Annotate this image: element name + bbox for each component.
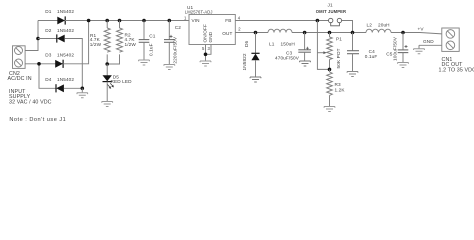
node bus R1 <box>105 19 109 23</box>
node bus R2 <box>118 19 122 23</box>
node D6 junction <box>254 31 258 35</box>
svg-text:D3: D3 <box>45 52 52 57</box>
svg-text:L1: L1 <box>269 42 275 47</box>
svg-text:ON/OFF: ON/OFF <box>203 24 208 42</box>
svg-text:GND: GND <box>208 31 213 42</box>
svg-text:C1: C1 <box>149 33 156 38</box>
resistor R3 <box>327 69 333 106</box>
svg-text:C2: C2 <box>175 25 182 30</box>
resistor R1 <box>104 21 110 65</box>
svg-text:1.2 TO 35 VDC: 1.2 TO 35 VDC <box>439 67 474 73</box>
svg-text:D1: D1 <box>45 9 52 14</box>
svg-text:0.1uF: 0.1uF <box>149 43 154 56</box>
label D5 RED LED <box>111 75 133 85</box>
connector CN1 <box>442 28 459 51</box>
wire D3 cathode riser to bus <box>63 21 89 64</box>
inductor L2 <box>366 29 391 32</box>
inductor L1 <box>268 29 292 32</box>
svg-text:470uF/50V: 470uF/50V <box>275 56 300 61</box>
svg-text:J1: J1 <box>328 3 333 8</box>
ground (C1) <box>139 60 150 65</box>
wire AC2 vertical to D4 <box>39 64 56 89</box>
wire OUT line mid <box>292 32 366 34</box>
svg-text:VIN: VIN <box>192 18 200 23</box>
svg-text:GND: GND <box>423 39 434 44</box>
svg-text:L2: L2 <box>367 23 373 28</box>
label INPUT SUPPLY <box>9 89 52 105</box>
svg-text:+V: +V <box>418 27 425 32</box>
ground (output) <box>414 45 425 53</box>
node LED junction <box>105 62 109 66</box>
svg-text:P1: P1 <box>336 37 342 42</box>
svg-text:1N5402: 1N5402 <box>57 28 74 33</box>
node bus x88 <box>87 19 91 23</box>
svg-text:1N5402: 1N5402 <box>57 9 74 14</box>
ground (C5) <box>398 63 409 68</box>
node bus C1 <box>142 19 146 23</box>
wire FB wiper drop <box>317 21 329 70</box>
connector CN2 <box>13 46 26 69</box>
ground (U1) <box>200 61 211 66</box>
capacitor C1 <box>139 21 150 61</box>
capacitor C5 <box>398 33 409 63</box>
label L1 150uH <box>269 42 295 47</box>
LED D5 <box>103 64 114 102</box>
svg-text:FB: FB <box>225 18 231 23</box>
svg-text:1N5822: 1N5822 <box>242 53 247 70</box>
svg-text:LM2576T-ADJ: LM2576T-ADJ <box>185 10 213 15</box>
node C3 junction <box>303 31 307 35</box>
svg-text:Note : Don't use J1: Note : Don't use J1 <box>9 117 66 123</box>
diode D3 <box>55 60 63 68</box>
wire GND to CN1 <box>419 44 442 46</box>
wire FB line <box>235 20 328 22</box>
svg-text:150uH: 150uH <box>281 42 295 47</box>
ground (D6) <box>250 77 261 82</box>
ground (C2) <box>164 65 175 70</box>
svg-text:1.2K: 1.2K <box>335 88 346 93</box>
wiper arrow <box>317 51 326 54</box>
wire FB line after J1 <box>342 21 353 33</box>
svg-text:1/2W: 1/2W <box>90 42 102 47</box>
wire D2 anode drop to D4 anode <box>65 39 83 89</box>
svg-text:RED LED: RED LED <box>111 79 133 84</box>
node pin5/3 junction <box>204 53 208 57</box>
ground (input minus) <box>77 93 88 98</box>
svg-text:AC/DC IN: AC/DC IN <box>8 76 32 82</box>
resistor R2 <box>107 21 122 65</box>
diode D2 <box>57 34 65 42</box>
node C4 junction <box>351 31 355 35</box>
svg-text:1N5402: 1N5402 <box>57 52 74 57</box>
node P1 top junction <box>328 31 332 35</box>
capacitor C2 <box>164 21 175 65</box>
svg-text:100uF/50V: 100uF/50V <box>392 36 397 61</box>
wire D1 anode <box>38 20 58 22</box>
svg-text:D6: D6 <box>244 40 249 47</box>
node D4 anode junction <box>81 87 85 91</box>
svg-text:2200uF/50V: 2200uF/50V <box>173 36 178 63</box>
ground (R3) <box>324 107 335 112</box>
node P1 bottom junction <box>328 68 332 72</box>
node AC2 junction <box>37 62 41 66</box>
wire to input ground <box>81 88 83 93</box>
diode D4 <box>56 84 64 92</box>
svg-text:1/2W: 1/2W <box>125 42 137 47</box>
svg-text:1N5402: 1N5402 <box>57 77 74 82</box>
wire top bus <box>65 20 189 22</box>
op-amp U1 regulator box <box>189 15 235 45</box>
wire CN2-A to bridge <box>25 21 38 51</box>
pin 5 wire <box>205 45 207 62</box>
svg-text:50K POT: 50K POT <box>336 48 341 68</box>
label R2 <box>125 33 137 47</box>
ground (LED) <box>102 102 113 107</box>
svg-text:OUT: OUT <box>222 31 232 36</box>
ground (C3) <box>300 61 311 66</box>
svg-text:32 VAC / 40 VDC: 32 VAC / 40 VDC <box>9 100 52 106</box>
potentiometer P1 <box>327 33 333 70</box>
wire OUT to CN1 <box>391 33 442 34</box>
svg-text:OMIT JUMPER: OMIT JUMPER <box>316 9 346 14</box>
node FB wiper tap <box>316 19 320 23</box>
wire CN2-B to D3 anode <box>25 63 56 65</box>
wire OUT line <box>235 32 268 34</box>
node AC1 junction (D2 cathode) <box>36 37 40 41</box>
pin 3 wire <box>206 45 212 55</box>
node C5 junction <box>401 31 405 35</box>
capacitor C3 <box>298 33 311 62</box>
ground (C4) <box>347 72 358 77</box>
wire D4 anode <box>64 87 82 89</box>
wire D2 cathode <box>38 38 57 40</box>
diode D6 <box>251 33 259 78</box>
node bus C2 <box>168 19 172 23</box>
svg-text:D2: D2 <box>45 28 52 33</box>
svg-text:D4: D4 <box>45 77 52 82</box>
svg-text:20uH: 20uH <box>378 23 390 28</box>
capacitor C4 <box>347 33 359 72</box>
label L2 20uH <box>367 23 390 28</box>
diode D1 <box>57 16 65 24</box>
label R1 <box>90 33 102 47</box>
svg-text:0.1uF: 0.1uF <box>365 54 378 59</box>
jumper J1 <box>329 18 342 26</box>
svg-text:R3: R3 <box>335 82 342 87</box>
